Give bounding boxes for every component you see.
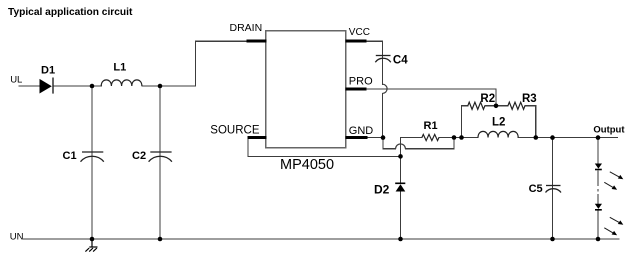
svg-text:C4: C4 [393, 55, 408, 67]
wire VCC pin to C4 and down to PRO hop [366, 41, 382, 84]
junction node C (GND/C4) [381, 135, 386, 140]
svg-text:D1: D1 [41, 64, 55, 76]
junction node J (SOURCE/D2) [398, 154, 403, 159]
wire R1 left leg to source node [401, 138, 422, 157]
svg-text:UL: UL [10, 74, 22, 85]
svg-text:Typical application circuit: Typical application circuit [8, 7, 133, 18]
wire L1 right to riser corner [142, 41, 246, 86]
wire L2 right to output end [518, 137, 617, 139]
svg-text:GND: GND [349, 125, 374, 137]
svg-text:DRAIN: DRAIN [230, 22, 263, 34]
resistor R3 [508, 102, 525, 109]
wire SOURCE pin down and right to D2 node [248, 139, 401, 156]
capacitor C1 [81, 152, 104, 162]
inductor L1 [101, 80, 142, 86]
capacitor C4 [375, 56, 391, 63]
wire PRO pin to R2-R3 node [367, 89, 496, 105]
wire D2 anode down to UN rail [400, 192, 402, 240]
junction node N (C5/UN rail) [550, 237, 555, 242]
wire hop over PRO (C4 branch) [383, 84, 388, 93]
svg-text:C5: C5 [529, 183, 543, 195]
wire GND pin to node C [368, 137, 384, 139]
svg-text:D2: D2 [374, 183, 390, 197]
IC U1 MP4050 body [266, 31, 346, 148]
wire D1 cathode to node A [53, 85, 101, 87]
ground symbol [85, 239, 97, 252]
wire GND return right segment up to R1 right [405, 138, 454, 149]
junction node F (PRO/R2-R3) [494, 104, 499, 109]
junction node G (R3 branch/L2 line) [534, 135, 539, 140]
capacitor C2 [149, 152, 172, 162]
pin PRO bar [346, 88, 367, 91]
resistor R1 [422, 134, 439, 140]
svg-text:VCC: VCC [349, 27, 370, 38]
svg-text:L1: L1 [113, 61, 126, 73]
svg-text:R3: R3 [522, 93, 537, 105]
svg-text:L2: L2 [492, 117, 505, 129]
pin DRAIN bar [246, 40, 266, 43]
wire R1 right to L2 node [439, 137, 478, 139]
LED D3 [595, 164, 602, 187]
LED D4 [595, 194, 602, 239]
svg-text:Output: Output [593, 124, 625, 135]
diode D1 [40, 78, 54, 94]
junction node D (R1 right/GND return) [452, 135, 457, 140]
junction node K (ground/UN rail) [90, 237, 95, 242]
resistor R2 [468, 102, 485, 109]
wire C5 through to UN rail [552, 138, 554, 239]
wire node A down through C1 to UN rail [91, 86, 93, 239]
svg-text:UN: UN [10, 231, 24, 242]
junction node L (C2/UN rail) [158, 237, 163, 242]
wire riser to R2 branch left [462, 106, 468, 138]
wire R2 right to R3 left [485, 105, 508, 107]
junction node I (LED top) [596, 135, 601, 140]
wire UN rail [24, 238, 620, 240]
wire C4 hop bottom to GND node [382, 93, 384, 137]
svg-text:SOURCE: SOURCE [210, 125, 260, 137]
svg-text:C1: C1 [63, 150, 77, 162]
svg-text:R1: R1 [424, 120, 438, 132]
svg-text:C2: C2 [132, 150, 146, 162]
pin GND bar [346, 136, 368, 139]
inductor L2 [478, 131, 518, 137]
diode D2 [395, 183, 405, 191]
junction node B (C2/top rail) [158, 84, 163, 89]
wire hop over D2 branch (GND return) [396, 144, 406, 149]
wire GND node down-right segment [383, 138, 396, 149]
capacitor C5 [546, 186, 562, 193]
LED light arrows for D4 [604, 217, 623, 235]
svg-text:PRO: PRO [349, 75, 373, 87]
pin SOURCE bar [248, 136, 267, 139]
svg-text:R2: R2 [480, 93, 495, 105]
wire UL to D1 anode [19, 85, 40, 87]
wire output node to LED1 [597, 138, 599, 164]
wire D2 node down to D2 cathode [400, 156, 402, 182]
junction node E (R2 branch riser) [459, 135, 464, 140]
wire R3 right down to L2 line [525, 106, 536, 138]
pin VCC bar [346, 40, 367, 43]
junction node H (C5 top) [550, 135, 555, 140]
wire node B down through C2 to UN rail [159, 86, 161, 239]
junction node O (LED/UN rail) [596, 237, 601, 242]
svg-text:MP4050: MP4050 [280, 157, 334, 173]
junction node M (D2/UN rail) [398, 237, 403, 242]
dashed wire (more LEDs) [597, 189, 599, 192]
LED light arrows for D3 [604, 172, 623, 190]
junction node A (C1/top rail) [90, 84, 95, 89]
